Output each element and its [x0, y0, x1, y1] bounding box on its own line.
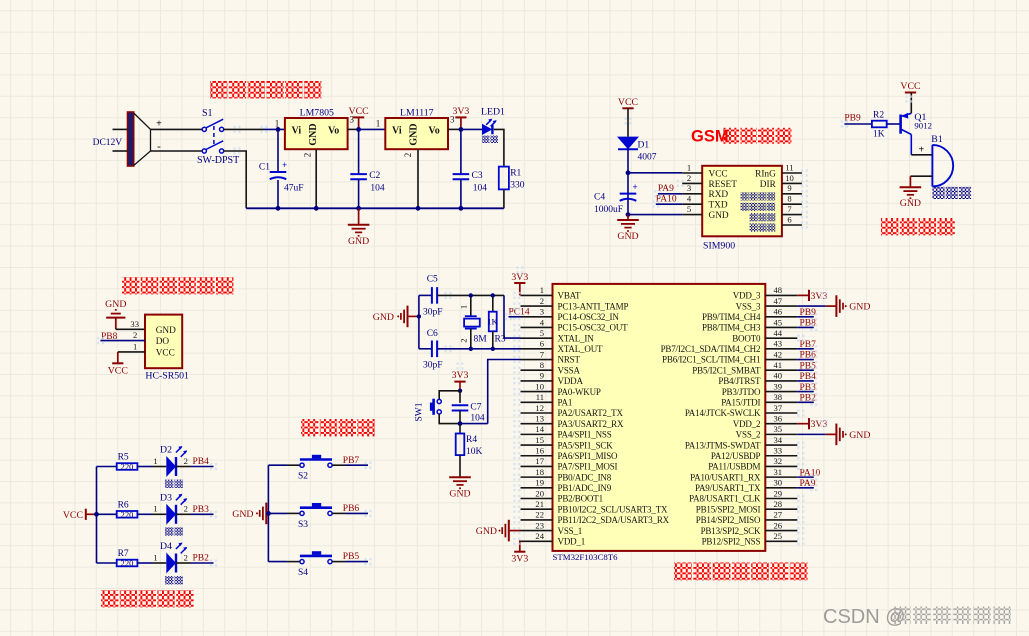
- svg-text:16: 16: [535, 446, 544, 456]
- node: reset top: [458, 389, 462, 393]
- svg-text:2: 2: [458, 338, 468, 342]
- svg-text:C1: C1: [259, 163, 270, 173]
- svg-text:GND: GND: [476, 526, 497, 537]
- wire: R5 to D2: [137, 466, 152, 468]
- svg-text:220: 220: [121, 509, 134, 519]
- svg-text:PB13/SPI2_SCK: PB13/SPI2_SCK: [701, 526, 761, 536]
- svg-text:11: 11: [785, 162, 793, 172]
- wire: VCC to D1: [627, 108, 629, 136]
- svg-text:GND: GND: [408, 123, 419, 145]
- pin 33 MCU PA12/USBDP: [765, 455, 797, 457]
- svg-text:330: 330: [510, 181, 525, 191]
- pin name: earphone +: [750, 213, 758, 221]
- svg-text:D2: D2: [160, 445, 172, 456]
- svg-text:37: 37: [774, 403, 783, 413]
- svg-text:34: 34: [774, 435, 783, 445]
- power port 3V3 (pin 36): [797, 423, 809, 425]
- svg-text:3V3: 3V3: [511, 554, 528, 565]
- svg-text:Vi: Vi: [292, 125, 302, 136]
- pin 40 MCU PB4/JTRST: [765, 380, 797, 382]
- svg-text:32: 32: [774, 456, 783, 466]
- svg-text:5: 5: [540, 328, 544, 338]
- svg-text:17: 17: [535, 456, 544, 466]
- svg-text:PC14-OSC32_IN: PC14-OSC32_IN: [558, 312, 620, 322]
- svg-text:VCC: VCC: [108, 366, 128, 377]
- power port VCC: [358, 117, 360, 129]
- wire: rail to R6: [97, 513, 117, 515]
- wire: PB9 to R2: [844, 123, 872, 125]
- wire: 3V3 to node: [459, 382, 461, 391]
- svg-text:8: 8: [540, 360, 544, 370]
- wire: rail to S3: [268, 512, 287, 514]
- svg-text:6: 6: [787, 214, 792, 224]
- svg-text:PC13-ANTI_TAMP: PC13-ANTI_TAMP: [558, 301, 629, 311]
- svg-text:GND: GND: [849, 302, 870, 313]
- switch S2 (pushbutton): [300, 463, 304, 467]
- wire: S2 to PB7: [332, 464, 345, 466]
- svg-text:NRST: NRST: [558, 355, 581, 365]
- node: junction D1/C4/SIM900 VCC: [626, 170, 631, 175]
- svg-text:D1: D1: [638, 141, 650, 151]
- wire: connector to switch S1 (top): [151, 128, 203, 130]
- svg-text:+: +: [282, 160, 287, 170]
- wire: rail to S2: [268, 464, 287, 466]
- svg-text:VDD_3: VDD_3: [733, 291, 761, 301]
- svg-text:PA14/JTCK-SWCLK: PA14/JTCK-SWCLK: [685, 408, 761, 418]
- pin 10 MCU PA0-WKUP: [521, 391, 553, 393]
- wire: buzzer to GND: [910, 175, 932, 177]
- svg-text:1: 1: [153, 552, 157, 562]
- transistor Q1 9012: [899, 115, 902, 134]
- wire: node to SIM900 pin1: [628, 172, 682, 174]
- wire: S3 to PB6: [332, 512, 345, 514]
- svg-text:PA12/USBDP: PA12/USBDP: [711, 451, 761, 461]
- wire: S1 minus to ground bus: [224, 151, 247, 208]
- wire: D1 to node: [627, 149, 629, 214]
- wire: connector to switch S1 (bottom): [151, 150, 203, 152]
- node: junction pin2/bus: [314, 206, 319, 211]
- svg-text:14: 14: [535, 424, 544, 434]
- pin 9 MCU VDDA: [521, 380, 553, 382]
- svg-text:D3: D3: [160, 493, 172, 504]
- section title: alarm circuit: [881, 218, 898, 235]
- resistor R7 220: [117, 560, 138, 567]
- pin 5 MCU XTAL_IN: [521, 337, 553, 339]
- label: lamp color (Chinese): [165, 527, 174, 536]
- capacitor C2 104: [358, 129, 360, 174]
- svg-text:27: 27: [774, 510, 783, 520]
- section title: MCU minimal system: [674, 563, 692, 581]
- capacitor C1 47uF: [277, 129, 279, 172]
- svg-text:2: 2: [184, 504, 188, 514]
- wire: button vertical rail: [267, 465, 269, 561]
- svg-text:PB9/TIM4_CH4: PB9/TIM4_CH4: [702, 312, 761, 322]
- pin 47 MCU VSS_3: [765, 305, 797, 307]
- svg-text:D4: D4: [160, 541, 172, 552]
- power port 3V3 (VBAT): [519, 283, 521, 295]
- pin 7 MCU NRST: [521, 359, 553, 361]
- svg-text:PA8/USART1_CLK: PA8/USART1_CLK: [689, 494, 761, 504]
- svg-text:35: 35: [774, 424, 783, 434]
- svg-text:4007: 4007: [638, 153, 657, 163]
- pin 6 MCU XTAL_OUT: [521, 348, 553, 350]
- svg-text:3V3: 3V3: [811, 291, 828, 302]
- svg-text:VSS_2: VSS_2: [736, 430, 761, 440]
- node: crystal top: [469, 293, 473, 297]
- svg-text:PB14/SPI2_MISO: PB14/SPI2_MISO: [696, 515, 761, 525]
- pin 4 MCU PC15-OSC32_OUT: [521, 326, 553, 328]
- wire: C6 to XTAL_OUT net: [437, 348, 520, 350]
- svg-text:220: 220: [121, 558, 134, 568]
- pin 30 MCU PA9/USART1_TX: [765, 487, 797, 489]
- resistor R4 10K: [459, 424, 461, 434]
- svg-text:39: 39: [774, 381, 783, 391]
- svg-text:LED1: LED1: [481, 107, 505, 118]
- wire: node to SIM900 pin5: [628, 214, 682, 216]
- node: R3 bottom: [491, 347, 495, 351]
- pin name: earphone -: [750, 224, 758, 232]
- svg-text:STM32F103C8T6: STM32F103C8T6: [553, 552, 619, 562]
- svg-text:2: 2: [540, 296, 544, 306]
- diode D1 4007: [617, 137, 639, 150]
- svg-text:PA0-WKUP: PA0-WKUP: [558, 387, 601, 397]
- pin 22 MCU PB11/I2C2_SDA/USART3_RX: [521, 519, 553, 521]
- pin 12 MCU PA2/USART2_TX: [521, 412, 553, 414]
- svg-text:10: 10: [785, 173, 794, 183]
- capacitor C5 30pF: [419, 294, 432, 296]
- power ground GND (reset): [449, 476, 471, 478]
- wire: rail to R5: [97, 466, 117, 468]
- pin 38 MCU PA15/JTDI: [765, 401, 797, 403]
- svg-text:13: 13: [535, 413, 544, 423]
- svg-text:PA9/USART1_TX: PA9/USART1_TX: [695, 483, 761, 493]
- wire: S4 to PB5: [332, 561, 345, 563]
- capacitor C4 1000uF: [620, 193, 637, 195]
- svg-text:1K: 1K: [873, 129, 885, 139]
- pin 1 SIM900 VCC: [682, 172, 702, 174]
- pin 36 MCU VDD_2: [765, 423, 797, 425]
- wire: node to NRST (pin 7): [460, 423, 488, 425]
- svg-text:GSM: GSM: [691, 128, 729, 146]
- svg-text:3V3: 3V3: [452, 106, 469, 117]
- label: lamp color (Chinese): [165, 576, 174, 585]
- svg-text:45: 45: [774, 317, 783, 327]
- power port 3V3 (reset): [459, 381, 461, 383]
- svg-text:+: +: [156, 118, 162, 129]
- svg-text:1: 1: [540, 285, 544, 295]
- svg-text:PB2: PB2: [193, 554, 210, 564]
- svg-text:33: 33: [130, 319, 139, 329]
- svg-text:1: 1: [376, 119, 381, 129]
- capacitor C7 104: [459, 391, 461, 403]
- svg-text:30: 30: [774, 478, 783, 488]
- pin 19 MCU PB1/ADC_IN9: [521, 487, 553, 489]
- module U: SIM900: [702, 166, 782, 237]
- svg-text:C7: C7: [470, 403, 481, 413]
- pin name: mic -: [741, 203, 749, 211]
- svg-text:4: 4: [687, 194, 692, 204]
- resistor R5 220: [117, 463, 138, 470]
- svg-text:GND: GND: [156, 326, 176, 336]
- pin 15 MCU PA5/SPI1_SCK: [521, 444, 553, 446]
- pin 28 MCU PB15/SPI2_MOSI: [765, 508, 797, 510]
- node: junction C2/bus: [356, 206, 361, 211]
- svg-text:30pF: 30pF: [423, 308, 443, 318]
- power ground GND (GSM): [627, 215, 629, 220]
- svg-text:PA6/SPI1_MISO: PA6/SPI1_MISO: [558, 451, 619, 461]
- section title: infrared detection circuit: [122, 277, 139, 294]
- svg-text:1: 1: [458, 305, 468, 309]
- pin 46 MCU PB9/TIM4_CH4: [765, 316, 797, 318]
- svg-text:PA10/USART1_RX: PA10/USART1_RX: [690, 472, 761, 482]
- crystal Y1 8M: [470, 295, 472, 316]
- wire: LED1 to R1: [494, 129, 504, 166]
- svg-text:31: 31: [774, 467, 783, 477]
- svg-text:3V3: 3V3: [452, 370, 469, 381]
- pin 32 MCU PA11/USBDM: [765, 465, 797, 467]
- wire: S1 to LM7805 Vi (pin 1): [224, 128, 264, 130]
- svg-text:C5: C5: [427, 275, 438, 285]
- pin 13 MCU PA3/USART2_RX: [521, 423, 553, 425]
- wire: C5 to XTAL_IN net: [437, 294, 504, 296]
- svg-text:104: 104: [473, 183, 488, 193]
- svg-text:7: 7: [787, 204, 792, 214]
- svg-text:R2: R2: [873, 111, 884, 121]
- wire: rail to S4: [268, 561, 287, 563]
- pin 24 MCU VDD_1: [521, 540, 553, 542]
- svg-text:S4: S4: [298, 568, 308, 578]
- svg-text:PA7/SPI1_MOSI: PA7/SPI1_MOSI: [558, 462, 618, 472]
- svg-text:PB5: PB5: [343, 552, 360, 562]
- wire: R7 to D4: [137, 562, 152, 564]
- svg-text:PB6: PB6: [343, 504, 360, 514]
- svg-text:9012: 9012: [914, 121, 932, 131]
- svg-text:25: 25: [774, 531, 783, 541]
- pin 7 SIM900: [782, 214, 802, 216]
- svg-text:DC12V: DC12V: [93, 138, 123, 148]
- wire: ground bus: [246, 207, 504, 209]
- pin 37 MCU PA14/JTCK-SWCLK: [765, 412, 797, 414]
- svg-text:GND: GND: [849, 430, 870, 441]
- power port VCC (GSM): [627, 107, 629, 109]
- svg-text:PB5/I2C1_SMBAT: PB5/I2C1_SMBAT: [692, 365, 761, 375]
- svg-text:PB10/I2C2_SCL/USART3_TX: PB10/I2C2_SCL/USART3_TX: [558, 504, 669, 514]
- pin 3 MCU PC14-OSC32_IN: [521, 316, 553, 318]
- svg-text:SIM900: SIM900: [703, 241, 735, 252]
- node: junction VCC: [356, 127, 361, 132]
- svg-text:+: +: [919, 145, 925, 156]
- svg-text:S2: S2: [298, 472, 308, 482]
- pin 2 MCU PC13-ANTI_TAMP: [521, 305, 553, 307]
- power ground GND (pin 47, sideways): [797, 305, 826, 307]
- power ground GND (pin 35, sideways): [797, 433, 826, 435]
- resistor R6 220: [117, 511, 138, 518]
- svg-text:28: 28: [774, 499, 783, 509]
- svg-text:PA11/USBDM: PA11/USBDM: [708, 462, 760, 472]
- pin 39 MCU PB3/JTDO: [765, 391, 797, 393]
- power port 3V3 (VDD_1, down): [519, 541, 522, 551]
- wire: VCC rail to LM1117: [359, 128, 386, 130]
- svg-text:30pF: 30pF: [423, 361, 443, 371]
- svg-text:2: 2: [133, 330, 137, 340]
- label: red color: [482, 136, 490, 144]
- svg-text:PA10: PA10: [656, 195, 677, 205]
- power ground GND (crystal, sideways): [407, 306, 409, 328]
- svg-text:43: 43: [774, 339, 783, 349]
- svg-text:1: 1: [153, 504, 157, 514]
- svg-text:3V3: 3V3: [811, 419, 828, 430]
- svg-text:20: 20: [535, 488, 544, 498]
- pin name: mic +: [741, 192, 749, 200]
- wire: VCC vertical rail: [96, 467, 98, 564]
- wire: SW1 bottom to node: [439, 414, 460, 424]
- svg-text:DO: DO: [156, 337, 170, 347]
- resistor R1 330: [499, 167, 509, 190]
- power port 3V3 (pin 48): [797, 294, 809, 296]
- pin 8 MCU VSSA: [521, 369, 553, 371]
- power port VCC (alarm): [910, 92, 912, 94]
- capacitor C6 30pF: [419, 348, 432, 350]
- pin 5 SIM900 GND: [682, 214, 702, 216]
- svg-text:29: 29: [774, 488, 783, 498]
- pin 1 MCU VBAT: [521, 294, 553, 296]
- node: junction 3V3: [459, 127, 464, 132]
- wire: D4 to PB2: [176, 562, 191, 564]
- wire: Q1 emitter to buzzer: [911, 154, 932, 156]
- power ground GND (bus): [358, 208, 360, 225]
- svg-text:8M: 8M: [474, 335, 488, 345]
- pin 2 SIM900 RESET: [682, 182, 702, 184]
- svg-text:PA13/JTMS-SWDAT: PA13/JTMS-SWDAT: [685, 440, 761, 450]
- section title: power supply circuit: [210, 81, 227, 98]
- svg-text:BOOT0: BOOT0: [732, 333, 761, 343]
- connection marks (no-connect indicators): [513, 292, 515, 294]
- svg-text:VCC: VCC: [63, 510, 83, 521]
- pin 31 MCU PA10/USART1_RX: [765, 476, 797, 478]
- svg-text:PA9: PA9: [658, 184, 674, 194]
- svg-text:S3: S3: [298, 520, 308, 530]
- pin 25 MCU PB12/SPI2_NSS: [765, 540, 797, 542]
- wire: XTAL_IN drop to pin 5: [504, 295, 521, 338]
- svg-text:38: 38: [774, 392, 783, 402]
- pin 26 MCU PB13/SPI2_SCK: [765, 530, 797, 532]
- svg-text:PB12/SPI2_NSS: PB12/SPI2_NSS: [702, 536, 761, 546]
- svg-text:2: 2: [403, 153, 413, 158]
- svg-text:41: 41: [774, 360, 783, 370]
- svg-text:+: +: [633, 182, 638, 192]
- svg-text:15: 15: [535, 435, 544, 445]
- pin 17 MCU PA7/SPI1_MOSI: [521, 465, 553, 467]
- node: junction C3/bus: [459, 206, 464, 211]
- svg-text:1: 1: [153, 456, 157, 466]
- pin 8 SIM900: [782, 203, 802, 205]
- svg-text:47: 47: [774, 296, 783, 306]
- svg-text:1K: 1K: [487, 317, 498, 327]
- pin 34 MCU PA13/JTMS-SWDAT: [765, 444, 797, 446]
- svg-text:RESET: RESET: [709, 180, 738, 190]
- svg-text:PB3/JTDO: PB3/JTDO: [722, 387, 761, 397]
- svg-text:VCC: VCC: [709, 169, 728, 179]
- wire: rail to R7: [97, 562, 117, 564]
- svg-text:2: 2: [687, 173, 691, 183]
- svg-text:PB7: PB7: [343, 456, 360, 466]
- pin 27 MCU PB14/SPI2_MISO: [765, 519, 797, 521]
- svg-text:11: 11: [536, 392, 544, 402]
- svg-text:12: 12: [535, 403, 544, 413]
- svg-text:HC-SR501: HC-SR501: [145, 370, 189, 381]
- svg-text:VCC: VCC: [349, 106, 369, 117]
- svg-text:2: 2: [184, 456, 188, 466]
- switch S3 (pushbutton): [300, 511, 304, 515]
- svg-text:33: 33: [774, 446, 783, 456]
- svg-text:24: 24: [535, 531, 544, 541]
- svg-text:23: 23: [535, 520, 544, 530]
- svg-text:GND: GND: [308, 123, 319, 145]
- svg-text:3: 3: [687, 183, 691, 193]
- svg-text:PB7/I2C1_SDA/TIM4_CH2: PB7/I2C1_SDA/TIM4_CH2: [661, 344, 761, 354]
- svg-text:GND: GND: [617, 231, 638, 242]
- pin 48 MCU VDD_3: [765, 294, 797, 296]
- svg-text:6: 6: [540, 339, 545, 349]
- pin 29 MCU PA8/USART1_CLK: [765, 498, 797, 500]
- node: junction C4/SIM900 GND: [626, 212, 631, 217]
- svg-text:Vi: Vi: [392, 125, 402, 136]
- svg-text:220: 220: [121, 462, 134, 472]
- node: junction pin2 LM1117/bus: [416, 206, 421, 211]
- svg-text:PA1: PA1: [558, 398, 573, 408]
- svg-text:1: 1: [687, 162, 691, 172]
- power port VCC (IR, inverted): [117, 352, 119, 363]
- node: reset bottom junction: [458, 421, 463, 426]
- svg-text:1: 1: [133, 341, 137, 351]
- svg-text:19: 19: [535, 478, 544, 488]
- pin 42 MCU PB6/I2C1_SCL/TIM4_CH1: [765, 359, 797, 361]
- svg-text:10K: 10K: [466, 447, 483, 457]
- module U: HC-SR501: [145, 315, 182, 369]
- svg-text:104: 104: [470, 414, 485, 424]
- svg-text:GND: GND: [232, 509, 253, 520]
- node: junction C1/Vi: [276, 127, 281, 132]
- wire: GND to switch rail: [266, 512, 268, 514]
- svg-text:R4: R4: [466, 435, 477, 445]
- svg-text:40: 40: [774, 371, 783, 381]
- section title: button circuit: [301, 419, 318, 436]
- svg-text:9: 9: [787, 183, 791, 193]
- svg-text:47uF: 47uF: [284, 184, 304, 194]
- pin 20 MCU PB2/BOOT1: [521, 498, 553, 500]
- svg-text:RInG: RInG: [755, 169, 776, 179]
- svg-text:PC15-OSC32_OUT: PC15-OSC32_OUT: [558, 323, 629, 333]
- svg-text:VSS_1: VSS_1: [558, 526, 583, 536]
- wire: PB8 to DO (pin 2): [100, 340, 145, 342]
- svg-text:Vo: Vo: [428, 125, 439, 136]
- pin 11 SIM900: [782, 172, 802, 174]
- svg-text:PA3/USART2_RX: PA3/USART2_RX: [558, 419, 624, 429]
- wire: D2 to PB4: [176, 466, 191, 468]
- svg-text:GND: GND: [348, 236, 369, 247]
- svg-text:PB2/BOOT1: PB2/BOOT1: [558, 494, 603, 504]
- svg-text:46: 46: [774, 307, 783, 317]
- svg-text:22: 22: [535, 510, 544, 520]
- svg-text:8: 8: [787, 194, 791, 204]
- pin 45 MCU PB8/TIM4_CH3: [765, 326, 797, 328]
- pin 9 SIM900: [782, 193, 802, 195]
- svg-text:PB0/ADC_IN8: PB0/ADC_IN8: [558, 472, 612, 482]
- wire: GND to crystal rail: [408, 315, 419, 317]
- svg-text:VDDA: VDDA: [558, 376, 584, 386]
- svg-text:Vo: Vo: [328, 125, 339, 136]
- wire: VCC to Q1 collector: [910, 93, 912, 114]
